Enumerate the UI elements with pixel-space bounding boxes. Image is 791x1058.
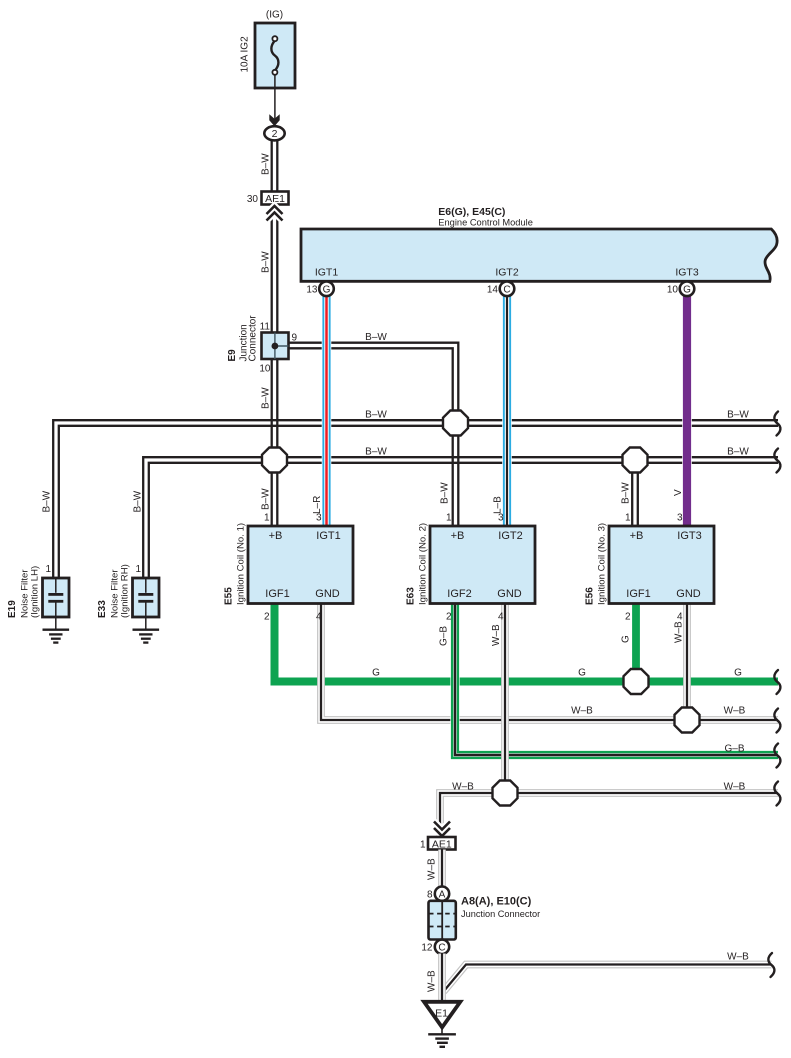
svg-text:B–W: B–W (365, 447, 387, 458)
wire break symbol (774, 709, 780, 733)
ignition coil E56 (585, 513, 715, 623)
svg-text:1: 1 (625, 513, 631, 524)
svg-text:10: 10 (259, 364, 271, 375)
junction node on B-W horizontal 2 at main wire (262, 448, 287, 473)
svg-text:IGF1: IGF1 (626, 588, 650, 600)
junction node on G wire (624, 669, 649, 694)
svg-text:A: A (439, 889, 446, 900)
wire W-B E63 GND down to junction (491, 603, 505, 794)
svg-text:E33: E33 (97, 600, 108, 618)
connector 1 AE1 lower (420, 837, 456, 850)
svg-text:GND: GND (315, 588, 340, 600)
wire break symbol (774, 670, 780, 694)
svg-text:C: C (503, 284, 510, 295)
wire L-R IGT1 to E55 pin 3 (312, 296, 327, 527)
svg-text:3: 3 (316, 513, 322, 524)
wire B-W E9 pin 9 to junction at IGT row (285, 332, 458, 423)
ground of E19 (43, 630, 70, 643)
svg-text:IGT1: IGT1 (316, 530, 340, 542)
svg-text:1: 1 (264, 513, 270, 524)
svg-text:13: 13 (306, 285, 318, 296)
wire V IGT3 to E56 pin 3 (673, 296, 687, 527)
pin 13 G of ECM (306, 282, 333, 297)
svg-text:B–W: B–W (365, 332, 387, 343)
arrow into node 2 (269, 114, 279, 126)
svg-text:2: 2 (446, 612, 452, 623)
ground symbol E1 (428, 1026, 456, 1047)
junction node on B-W horizontal 2 at E56 (623, 448, 648, 473)
wire W-B pin 12 to E1 (427, 954, 443, 1003)
svg-text:G–B: G–B (724, 744, 744, 755)
svg-text:W–B: W–B (452, 782, 474, 793)
svg-text:B–W: B–W (621, 482, 632, 504)
svg-text:B–W: B–W (261, 251, 272, 273)
noise filter E19 (7, 564, 69, 629)
svg-text:G: G (372, 668, 380, 679)
connector 30 AE1 (247, 192, 289, 206)
svg-text:GND: GND (676, 588, 701, 600)
svg-text:12: 12 (421, 943, 433, 954)
wire G E56 IGF1 drop (621, 604, 637, 682)
svg-text:4: 4 (677, 612, 683, 623)
wire L-B IGT2 to E63 pin 3 (493, 296, 508, 527)
pin 12 C of junction connector (421, 940, 449, 954)
wire B-W horizontal 1 with drop to E19 (42, 410, 779, 579)
svg-text:(IG): (IG) (266, 10, 283, 21)
wire break symbol (774, 449, 780, 473)
svg-text:4: 4 (498, 612, 504, 623)
svg-text:B–W: B–W (440, 482, 451, 504)
wire B-W E9 pin 10 down to E55 +B pin 1 (261, 359, 278, 526)
wire G-B E63 IGF2 to right edge (439, 603, 779, 756)
svg-text:GND: GND (497, 588, 522, 600)
svg-text:3: 3 (498, 513, 504, 524)
wire B-W junction to E56 +B pin 1 (621, 460, 638, 526)
svg-text:B–W: B–W (133, 490, 144, 512)
svg-text:11: 11 (260, 322, 271, 333)
svg-text:W–B: W–B (674, 621, 685, 643)
wire G E55 IGF1 to right edge (275, 603, 779, 682)
wire W-B E55 GND to right edge (321, 603, 778, 721)
svg-text:B–W: B–W (42, 490, 53, 512)
wire break symbol (768, 953, 774, 977)
svg-text:E1: E1 (435, 1008, 448, 1020)
svg-text:E19: E19 (7, 600, 18, 618)
svg-text:V: V (673, 489, 684, 496)
junction node on W-B wire at E56 GND (675, 708, 700, 733)
ignition coil E63 (406, 513, 536, 623)
svg-text:Ignition Coil (No. 1): Ignition Coil (No. 1) (236, 523, 247, 605)
svg-text:G: G (683, 284, 691, 295)
svg-text:3: 3 (677, 513, 683, 524)
svg-text:B–W: B–W (261, 488, 272, 510)
svg-text:1: 1 (420, 839, 426, 850)
svg-text:L–B: L–B (493, 496, 504, 514)
svg-text:1: 1 (45, 564, 51, 575)
junction connector E9 (227, 315, 298, 375)
wire break symbol (774, 744, 780, 768)
svg-text:IGT3: IGT3 (677, 530, 701, 542)
svg-text:W–B: W–B (724, 706, 746, 717)
wire W-B E56 GND down to junction (674, 604, 688, 720)
svg-text:Junction Connector: Junction Connector (461, 909, 540, 919)
wire W-B AE1 to A8 pin 8 (427, 850, 443, 888)
svg-text:IGF2: IGF2 (447, 588, 471, 600)
svg-text:14: 14 (487, 285, 499, 296)
svg-text:8: 8 (427, 890, 433, 901)
svg-text:+B: +B (451, 530, 465, 542)
svg-text:E63: E63 (406, 587, 417, 605)
noise filter E33 (97, 564, 159, 629)
svg-text:A8(A), E10(C): A8(A), E10(C) (461, 896, 532, 908)
svg-text:G: G (734, 668, 742, 679)
svg-text:1: 1 (446, 513, 452, 524)
svg-text:2: 2 (625, 612, 631, 623)
svg-text:IGT3: IGT3 (675, 267, 698, 279)
svg-text:+B: +B (630, 530, 644, 542)
fuse 10A IG2 (IG) (240, 10, 296, 89)
wire B-W node2 to AE1 (261, 140, 278, 192)
svg-text:G–B: G–B (439, 626, 450, 646)
svg-text:B–W: B–W (727, 410, 749, 421)
svg-text:Ignition Coil (No. 3): Ignition Coil (No. 3) (597, 523, 608, 605)
svg-text:G: G (578, 668, 586, 679)
svg-text:Ignition Coil (No. 2): Ignition Coil (No. 2) (418, 523, 429, 605)
svg-text:AE1: AE1 (432, 838, 452, 850)
pin 14 C of ECM (487, 282, 514, 297)
svg-text:E6(G), E45(C): E6(G), E45(C) (438, 206, 505, 218)
pin 8 A of junction connector (427, 887, 449, 901)
svg-text:B–W: B–W (261, 387, 272, 409)
svg-text:30: 30 (247, 194, 259, 205)
svg-text:IGT2: IGT2 (498, 530, 522, 542)
svg-text:IGF1: IGF1 (265, 588, 289, 600)
svg-text:B–W: B–W (365, 410, 387, 421)
svg-text:10A IG2: 10A IG2 (240, 36, 251, 73)
continuation arrows above lower AE1 (434, 822, 450, 837)
continuation arrows below AE1 (267, 206, 283, 221)
svg-text:G: G (621, 635, 632, 643)
pin 10 G of ECM (667, 282, 694, 297)
svg-text:(Ignition RH): (Ignition RH) (120, 564, 131, 618)
svg-text:9: 9 (292, 333, 298, 344)
svg-text:10: 10 (667, 285, 679, 296)
node 2 (splice ellipse) (264, 126, 284, 140)
svg-text:Connector: Connector (248, 315, 259, 362)
ECM E6(G) E45(C) Engine Control Module (301, 206, 777, 281)
junction node on lower W-B wire (493, 781, 518, 806)
svg-text:C: C (438, 942, 445, 953)
ground point E1 (424, 1002, 460, 1028)
svg-text:IGT2: IGT2 (495, 267, 518, 279)
svg-text:W–B: W–B (571, 706, 593, 717)
svg-text:Engine Control Module: Engine Control Module (438, 218, 533, 228)
ground of E33 (133, 630, 160, 643)
wire break symbol (774, 782, 780, 806)
svg-text:B–W: B–W (261, 153, 272, 175)
svg-text:B–W: B–W (727, 447, 749, 458)
svg-text:W–B: W–B (427, 858, 438, 880)
svg-text:IGT1: IGT1 (315, 267, 338, 279)
svg-text:2: 2 (272, 128, 278, 140)
svg-text:E9: E9 (227, 349, 238, 362)
wire B-W AE1 to E9 pin 11 (261, 205, 278, 334)
svg-text:4: 4 (316, 612, 322, 623)
svg-text:2: 2 (264, 612, 270, 623)
ignition coil E55 (224, 513, 354, 623)
svg-text:L–R: L–R (312, 496, 323, 514)
svg-text:W–B: W–B (727, 952, 749, 963)
wire W-B lower horizontal to AE1 (440, 782, 778, 838)
svg-text:W–B: W–B (724, 782, 746, 793)
wire break symbol (774, 412, 780, 436)
svg-text:W–B: W–B (427, 970, 438, 992)
svg-text:E55: E55 (224, 587, 235, 605)
wire W-B branch to right edge (444, 952, 772, 992)
svg-text:(Ignition LH): (Ignition LH) (30, 566, 41, 618)
svg-text:+B: +B (269, 530, 283, 542)
junction connector A8(A) E10(C) (429, 896, 541, 940)
wire B-W horizontal 2 with drop to E33 (133, 447, 779, 579)
svg-text:G: G (323, 284, 331, 295)
junction node on B-W horizontal 1 (443, 411, 468, 436)
svg-text:1: 1 (135, 564, 141, 575)
wire B-W junction to E63 +B pin 1 (440, 423, 459, 526)
wire fuse to node 2 (274, 74, 276, 119)
svg-text:W–B: W–B (491, 624, 502, 646)
svg-text:E56: E56 (585, 587, 596, 605)
